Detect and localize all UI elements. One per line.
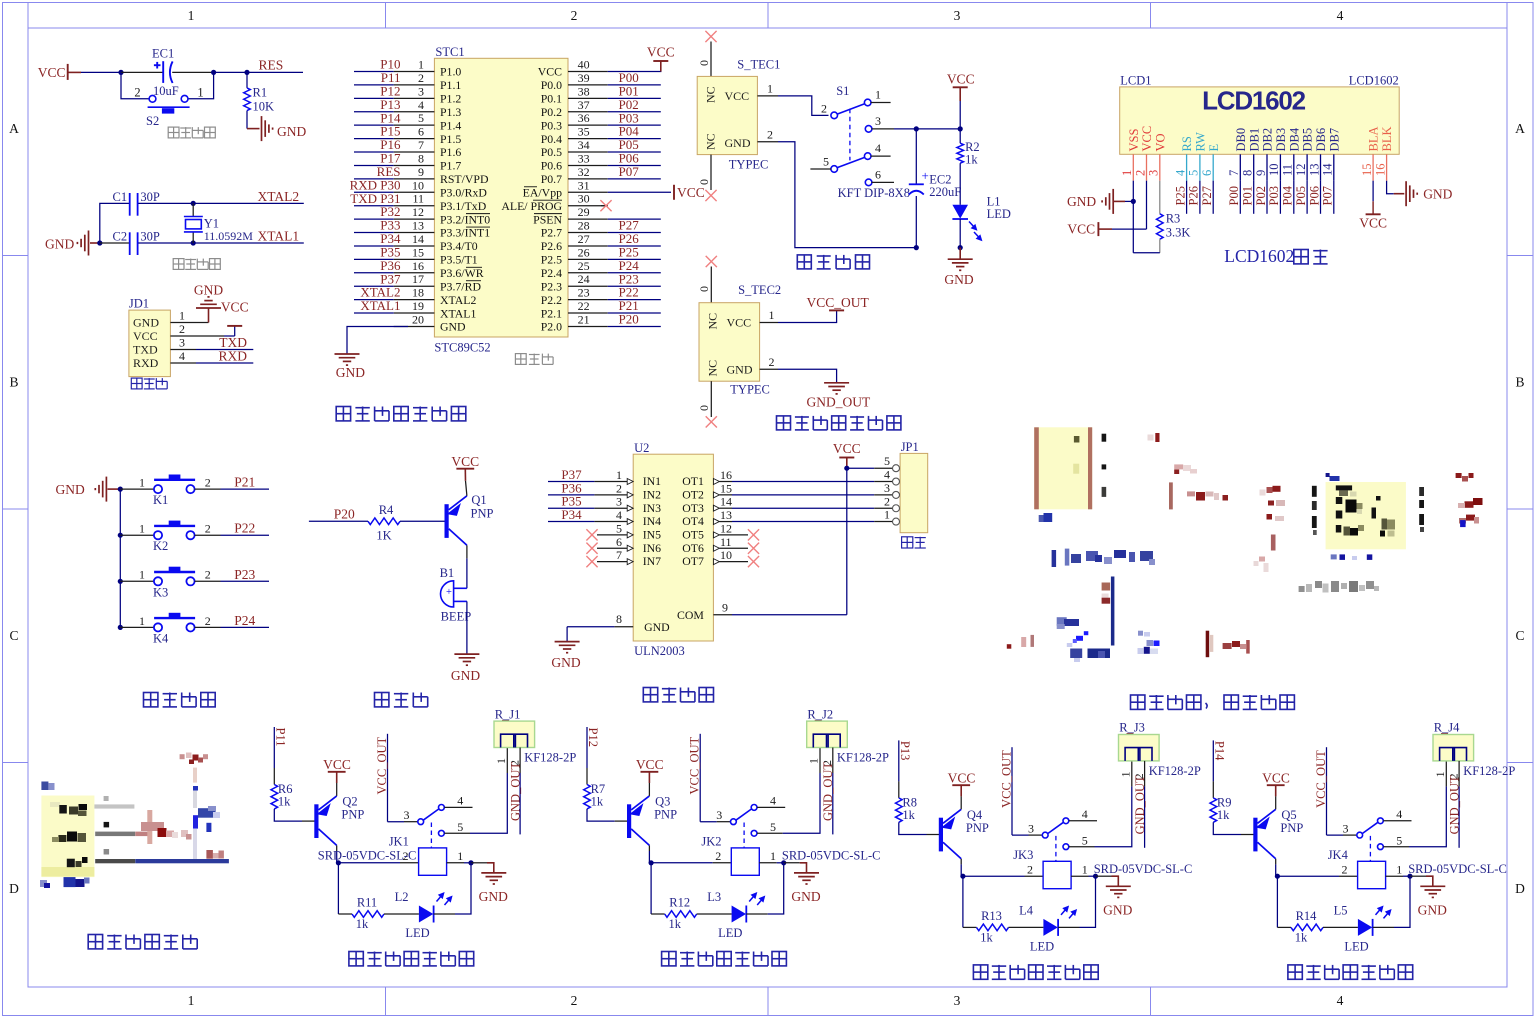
svg-text:P1.3: P1.3 [440, 105, 461, 119]
wire XTAL1 [193, 242, 304, 244]
ground GND (LCD right) [1405, 181, 1407, 206]
ground GND above JD1 [208, 308, 210, 323]
svg-text:1k: 1k [902, 808, 915, 822]
caption 下载口 [131, 378, 142, 389]
svg-text:8: 8 [616, 612, 622, 626]
wire K1 right [195, 488, 221, 490]
svg-text:P34: P34 [561, 507, 582, 522]
svg-text:4: 4 [1082, 807, 1088, 821]
wire to GND (JK2) [784, 862, 800, 864]
S1 pin6 wire [872, 181, 895, 183]
svg-text:220uF: 220uF [929, 185, 961, 199]
svg-text:P05: P05 [1294, 186, 1308, 205]
svg-text:K4: K4 [153, 631, 169, 645]
svg-text:GND_OUT: GND_OUT [1133, 775, 1147, 834]
svg-text:DB5: DB5 [1301, 128, 1315, 152]
svg-text:4: 4 [616, 508, 622, 522]
caption 独立按键 [144, 693, 158, 707]
node junction R2 top [958, 126, 963, 131]
node junction LCD gnd [1131, 199, 1136, 204]
node junction XTAL1 [191, 240, 196, 245]
svg-text:R13: R13 [981, 909, 1002, 923]
svg-text:1: 1 [884, 508, 890, 522]
mosaic brown blocks near bar [1102, 583, 1111, 591]
wire node to EC1 [121, 71, 163, 73]
node junction crystal gnd [97, 240, 102, 245]
wire crystal left vertical [100, 203, 129, 243]
svg-text:GND: GND [791, 889, 820, 904]
svg-text:P20: P20 [334, 506, 355, 521]
wire C2 row [100, 242, 129, 244]
svg-text:GND_OUT: GND_OUT [508, 762, 522, 821]
STC1 right pins [568, 71, 608, 73]
svg-text:14: 14 [1321, 163, 1335, 176]
svg-text:P1.1: P1.1 [440, 78, 461, 92]
caption 晶振电路 [173, 259, 184, 270]
svg-text:VCC: VCC [636, 757, 664, 772]
node junction reset-left [118, 70, 123, 75]
svg-text:30P: 30P [140, 190, 160, 204]
svg-text:K3: K3 [153, 585, 168, 599]
svg-text:KF128-2P: KF128-2P [524, 751, 576, 765]
wire R7 to Q3 base [587, 809, 615, 821]
JP1 pins [893, 465, 900, 472]
svg-text:3: 3 [954, 993, 961, 1008]
JD1 pin 3 wire TXD [170, 349, 196, 351]
svg-text:1: 1 [1396, 862, 1402, 876]
S1 pin5 wire [810, 168, 831, 170]
mosaic right blue square [1460, 520, 1466, 527]
svg-text:1: 1 [1118, 771, 1132, 777]
svg-text:P2.6: P2.6 [541, 239, 562, 253]
svg-text:KF128-2P: KF128-2P [1149, 764, 1201, 778]
svg-text:BLA: BLA [1367, 127, 1381, 152]
svg-text:VCC: VCC [948, 770, 976, 785]
wire EC1 to node2 [172, 71, 213, 73]
svg-text:ULN2003: ULN2003 [634, 644, 685, 658]
svg-text:5: 5 [884, 454, 890, 468]
connector R_J4 box [1433, 735, 1474, 761]
svg-text:GND: GND [451, 668, 480, 683]
svg-text:12: 12 [720, 521, 732, 535]
svg-text:35: 35 [578, 125, 590, 139]
svg-text:LED: LED [1344, 939, 1368, 953]
svg-text:1: 1 [1120, 170, 1134, 176]
svg-text:P0.6: P0.6 [541, 159, 562, 173]
svg-text:P1.2: P1.2 [440, 92, 461, 106]
wire JK2 right [759, 862, 776, 864]
transistor Q4 PNP [939, 818, 943, 852]
svg-text:XTAL1: XTAL1 [258, 229, 300, 244]
svg-text:S2: S2 [146, 114, 159, 128]
svg-text:SRD-05VDC-SL-C: SRD-05VDC-SL-C [1094, 862, 1193, 876]
svg-text:P0.0: P0.0 [541, 78, 562, 92]
wire Q5 collector [1275, 859, 1277, 865]
svg-text:0: 0 [697, 179, 711, 185]
svg-text:3.3K: 3.3K [1166, 226, 1191, 240]
svg-text:7: 7 [418, 138, 424, 152]
svg-text:VCC_OUT: VCC_OUT [807, 295, 870, 310]
svg-text:12: 12 [412, 205, 424, 219]
resistor R13 [977, 924, 1009, 931]
wire GND pin20 [347, 326, 408, 354]
resistor R12 [665, 911, 697, 918]
buzzer B1 [441, 581, 467, 607]
node junction JK1 left [336, 860, 341, 865]
node junction EC2 top [914, 126, 919, 131]
svg-text:4: 4 [875, 141, 881, 155]
svg-text:JK4: JK4 [1328, 848, 1349, 862]
svg-text:4: 4 [418, 98, 424, 112]
relay JK4 box [1358, 861, 1386, 888]
wire LED branch down (L5) [1276, 876, 1278, 927]
wire S_TEC1 bottom stub [710, 155, 712, 190]
frame row ticks [3, 255, 29, 257]
U2 pin arrows [627, 479, 633, 485]
S1 dashed link [849, 109, 851, 161]
svg-text:R3: R3 [1166, 212, 1181, 226]
svg-text:VCC: VCC [1067, 222, 1095, 237]
svg-text:P0.2: P0.2 [541, 105, 562, 119]
mosaic col dashes x1312 [1312, 486, 1317, 497]
svg-text:VCC: VCC [727, 315, 752, 329]
svg-text:8: 8 [418, 151, 424, 165]
svg-text:JP1: JP1 [901, 440, 919, 454]
svg-text:R11: R11 [357, 896, 377, 910]
node junction JK2 right [781, 860, 786, 865]
svg-text:1: 1 [197, 86, 203, 100]
wire EC2 vertical [915, 129, 917, 184]
mosaic left red clusters [1267, 487, 1273, 493]
ground GND (JK3) [1106, 885, 1131, 887]
svg-text:PNP: PNP [471, 507, 494, 521]
wire contact5 to R_J2 [757, 832, 783, 834]
svg-text:L2: L2 [395, 890, 409, 904]
svg-text:9: 9 [418, 165, 424, 179]
svg-text:K1: K1 [153, 493, 168, 507]
svg-text:DB3: DB3 [1274, 128, 1288, 152]
svg-text:GND: GND [944, 272, 973, 287]
mosaic vertical navy bar [1111, 577, 1115, 646]
svg-text:JD1: JD1 [129, 297, 149, 311]
svg-text:P2.4: P2.4 [541, 266, 562, 280]
relay dashed link (JK4) [1369, 836, 1371, 861]
svg-text:VCC: VCC [1359, 216, 1387, 231]
connector JP1 box [900, 453, 928, 532]
svg-text:1K: 1K [376, 529, 391, 543]
temp mosaic black row2 [58, 835, 66, 842]
LCD1 pin stubs [1132, 154, 1134, 180]
svg-text:A: A [9, 121, 19, 136]
svg-text:1k: 1k [591, 795, 604, 809]
power port VCC (pin40) [653, 60, 668, 62]
svg-text:P3.5/T1: P3.5/T1 [440, 253, 478, 267]
svg-text:5: 5 [823, 155, 829, 169]
svg-text:2: 2 [821, 102, 827, 116]
wire R13 to L4 [1009, 926, 1044, 928]
wire Q1 collector [466, 545, 468, 558]
LED L1 [952, 205, 968, 219]
wire L5 to rail [1373, 926, 1394, 928]
caption 蜂鸣器 [375, 693, 389, 707]
transistor Q2 PNP [314, 804, 318, 838]
svg-text:26: 26 [578, 245, 590, 259]
svg-text:P12: P12 [586, 728, 600, 747]
svg-text:15: 15 [412, 245, 424, 259]
wire LED branch down (L4) [962, 876, 964, 927]
resistor R1 [246, 72, 248, 88]
wire C1 to Y1 node [138, 202, 193, 204]
svg-text:16: 16 [1373, 164, 1387, 177]
relay dashed link (JK2) [743, 823, 745, 848]
svg-text:P2.3: P2.3 [541, 279, 562, 293]
svg-text:4: 4 [1396, 807, 1402, 821]
svg-text:5: 5 [770, 820, 776, 834]
mosaic dark red mid cluster [1187, 491, 1195, 496]
node junction VCC-JP1 [844, 466, 849, 471]
svg-text:12: 12 [1294, 164, 1308, 177]
svg-text:R14: R14 [1296, 909, 1318, 923]
svg-text:10K: 10K [253, 100, 275, 114]
ground GND (U2) [555, 641, 580, 643]
caption 继电器控制输出 (JK4) [1288, 965, 1302, 979]
power port VCC (LCD BLA) [1366, 213, 1381, 215]
svg-text:R1: R1 [253, 86, 268, 100]
svg-text:P1.7: P1.7 [440, 159, 461, 173]
svg-text:0: 0 [697, 405, 711, 411]
relay dashed link (JK3) [1055, 836, 1057, 861]
no-connect X (S_TEC1 bottom) [705, 190, 716, 201]
wire K4 left [120, 626, 154, 628]
svg-text:5: 5 [418, 111, 424, 125]
wire contact5 to R_J4 [1383, 846, 1409, 848]
svg-text:EC1: EC1 [152, 47, 174, 61]
wire K2 left [120, 534, 154, 536]
svg-text:XTAL1: XTAL1 [360, 298, 400, 313]
caption 继电器电源电路 [777, 416, 791, 430]
wire S2 left leg [121, 72, 150, 98]
svg-text:VCC: VCC [538, 65, 562, 79]
svg-text:JK1: JK1 [389, 835, 409, 849]
svg-text:GND: GND [1418, 902, 1447, 917]
svg-text:10: 10 [720, 548, 732, 562]
svg-text:1: 1 [139, 476, 145, 490]
svg-text:3: 3 [616, 495, 622, 509]
svg-text:OT3: OT3 [682, 501, 704, 515]
wire S_TEC2 top stub [710, 267, 712, 303]
wire P11 input [273, 727, 275, 768]
svg-text:P11: P11 [274, 728, 288, 747]
svg-text:4: 4 [1337, 8, 1344, 23]
svg-text:D: D [1515, 881, 1525, 896]
no-connect X (S_TEC2 top) [706, 256, 717, 267]
wire VCC_OUT (JK1) [387, 734, 389, 822]
svg-text:19: 19 [412, 299, 424, 313]
svg-text:P1.6: P1.6 [440, 145, 461, 159]
svg-text:4: 4 [179, 349, 185, 363]
no-connect X (S_TEC1 top) [705, 31, 716, 42]
svg-text:5: 5 [616, 521, 622, 535]
svg-text:GND: GND [133, 316, 159, 330]
svg-text:34: 34 [578, 138, 590, 152]
svg-text:A: A [1515, 121, 1525, 136]
svg-text:GND: GND [440, 320, 466, 334]
svg-text:3: 3 [875, 114, 881, 128]
resistor R7 [584, 785, 591, 809]
svg-text:5: 5 [457, 820, 463, 834]
wire LCD pin1 (VSS) [1132, 181, 1134, 253]
svg-text:24: 24 [578, 272, 590, 286]
power port VCC above JD1 pin2 [234, 326, 236, 336]
svg-text:VCC: VCC [647, 45, 675, 60]
svg-text:P27: P27 [1200, 186, 1214, 205]
svg-text:VCC_OUT: VCC_OUT [375, 736, 389, 794]
svg-text:10: 10 [1267, 164, 1281, 177]
svg-text:BLK: BLK [1380, 127, 1394, 152]
svg-text:4: 4 [770, 794, 776, 808]
svg-text:DB7: DB7 [1327, 128, 1341, 152]
svg-text:3: 3 [1028, 821, 1034, 835]
wire Q4 collector [960, 859, 962, 865]
mosaic small left marks [1007, 644, 1012, 649]
wire L3 to rail [746, 913, 767, 915]
svg-text:GND: GND [1423, 187, 1452, 202]
svg-text:11: 11 [720, 535, 732, 549]
svg-text:LCD1: LCD1 [1120, 74, 1151, 88]
S_TEC1 pin 2 wire [757, 141, 778, 143]
node junction JK1 right [468, 860, 473, 865]
svg-text:2: 2 [1342, 862, 1348, 876]
S_TEC1 pin 1 wire [757, 95, 778, 97]
mosaic right dark red clusters [1456, 473, 1462, 478]
svg-text:1k: 1k [1295, 930, 1308, 944]
svg-text:SRD-05VDC-SL-C: SRD-05VDC-SL-C [1408, 862, 1507, 876]
svg-text:OT2: OT2 [682, 487, 704, 501]
node junction EC2 bottom [914, 245, 919, 250]
mosaic black dashes col1 [1102, 434, 1107, 442]
svg-text:VO: VO [1153, 133, 1167, 151]
svg-text:1k: 1k [278, 795, 291, 809]
svg-text:GND: GND [56, 482, 85, 497]
svg-text:2: 2 [571, 8, 578, 23]
svg-text:10: 10 [412, 178, 424, 192]
svg-text:1: 1 [770, 849, 776, 863]
svg-text:P21: P21 [234, 475, 255, 490]
resistor R11 [352, 911, 384, 918]
svg-text:13: 13 [720, 508, 732, 522]
node junction XTAL2 [191, 201, 196, 206]
wire K3 left [120, 580, 154, 582]
IC STC1 body (STC89C52) [434, 58, 568, 337]
S1 pin1 wire [871, 102, 891, 104]
svg-text:TYPEC: TYPEC [730, 382, 770, 396]
svg-text:R_J1: R_J1 [495, 707, 521, 721]
svg-text:11.0592M: 11.0592M [204, 229, 254, 243]
svg-text:GND: GND [277, 124, 306, 139]
keys bus wire [119, 489, 121, 627]
IC U2 body (ULN2003) [633, 454, 713, 641]
svg-text:1: 1 [494, 758, 508, 764]
wire JK4 right [1386, 875, 1403, 877]
svg-text:7: 7 [616, 548, 622, 562]
svg-text:P25: P25 [1173, 186, 1187, 205]
svg-text:VCC: VCC [833, 441, 861, 456]
mosaic bottom navy band [1070, 649, 1082, 659]
mosaic navy cluster mid [1057, 617, 1067, 626]
capacitor EC1 [154, 61, 173, 83]
svg-text:LED: LED [987, 207, 1011, 221]
connector R_J3 box [1119, 735, 1160, 761]
svg-text:15: 15 [720, 481, 732, 495]
wire K2 right [195, 534, 221, 536]
svg-text:PSEN: PSEN [533, 212, 562, 226]
svg-text:JK3: JK3 [1013, 848, 1033, 862]
svg-text:2: 2 [571, 993, 578, 1008]
svg-text:0: 0 [697, 60, 711, 66]
svg-text:2: 2 [1027, 862, 1033, 876]
wire LCD pin15 (BLA) [1372, 181, 1374, 202]
caption 电源电路 [797, 255, 811, 269]
power port VCC (pin31) [673, 185, 675, 200]
svg-text:6: 6 [616, 535, 622, 549]
svg-text:11: 11 [412, 192, 424, 206]
node junction K2 [118, 533, 123, 538]
svg-text:S1: S1 [836, 84, 849, 98]
JD1 pin 1 wire [170, 322, 196, 324]
svg-text:VCC_OUT: VCC_OUT [1314, 750, 1328, 808]
connector S_TEC1 box [697, 76, 757, 154]
svg-text:P01: P01 [1241, 186, 1255, 205]
svg-text:C: C [1515, 628, 1524, 643]
svg-text:Q2: Q2 [342, 795, 357, 809]
svg-text:IN7: IN7 [643, 554, 661, 568]
node junction JK3 right [1093, 874, 1098, 879]
wire rail to JK4 [1277, 875, 1339, 877]
svg-text:P02: P02 [1254, 186, 1268, 205]
wire K3 right [195, 580, 221, 582]
caption 电机 (JP1) [902, 537, 913, 548]
svg-text:1: 1 [616, 468, 622, 482]
svg-text:VCC: VCC [677, 185, 705, 200]
node junction RES [244, 70, 249, 75]
svg-text:P13: P13 [898, 741, 912, 760]
switch K1 [154, 480, 195, 493]
wire L4 to rail [1058, 926, 1079, 928]
resistor R8 [896, 798, 903, 822]
wire contact4 stub (JK1) [444, 806, 472, 808]
wire R4 to Q1 base [400, 520, 445, 522]
mosaic bottom right red cluster [1223, 643, 1232, 649]
svg-text:GND_OUT: GND_OUT [807, 395, 871, 410]
svg-text:R_J2: R_J2 [807, 707, 833, 721]
temp mosaic blue below box [40, 880, 47, 887]
svg-text:XTAL2: XTAL2 [440, 293, 477, 307]
svg-text:1k: 1k [965, 153, 978, 167]
svg-text:9: 9 [722, 600, 728, 614]
svg-text:16: 16 [412, 259, 424, 273]
caption 继电器控制输出 (JK2) [662, 952, 676, 966]
svg-text:L3: L3 [707, 890, 721, 904]
wire contact4 stub (JK3) [1069, 820, 1097, 822]
crystal Y1 [192, 203, 194, 216]
svg-text:IN3: IN3 [643, 501, 661, 515]
R_J4 pin2 wire [1458, 761, 1460, 787]
R_J3 pin2 wire [1144, 761, 1146, 787]
R_J3 pin1 marker [1127, 733, 1134, 735]
svg-text:3: 3 [954, 8, 961, 23]
svg-text:RST/VPD: RST/VPD [440, 172, 489, 186]
temp mosaic salmon bottom right [206, 850, 213, 859]
